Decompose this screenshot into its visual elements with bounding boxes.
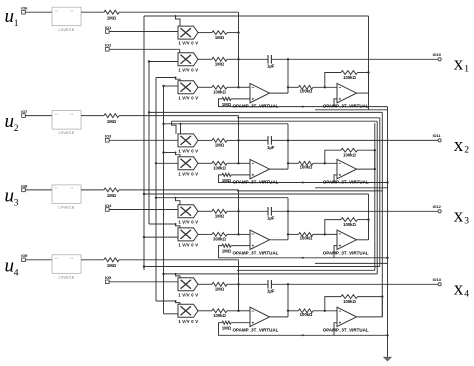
svg-text:100kΩ: 100kΩ bbox=[343, 222, 356, 227]
svg-text:OPAMP_3T_VIRTUAL: OPAMP_3T_VIRTUAL bbox=[233, 328, 279, 333]
svg-text:100kΩ: 100kΩ bbox=[300, 312, 313, 317]
svg-text:1MΩ: 1MΩ bbox=[222, 178, 232, 183]
svg-text:1: 1 bbox=[14, 19, 19, 29]
svg-text:IO5: IO5 bbox=[105, 276, 111, 280]
svg-text:100kΩ: 100kΩ bbox=[213, 166, 226, 171]
svg-text:IO2: IO2 bbox=[105, 44, 111, 48]
svg-text:x: x bbox=[454, 279, 464, 300]
svg-text:IO8: IO8 bbox=[21, 184, 27, 188]
svg-text:LVVECE: LVVECE bbox=[59, 275, 75, 279]
svg-text:4: 4 bbox=[464, 290, 469, 300]
svg-text:100kΩ: 100kΩ bbox=[343, 153, 356, 158]
svg-text:1 V/V 0 V: 1 V/V 0 V bbox=[178, 95, 198, 100]
svg-text:1MΩ: 1MΩ bbox=[107, 263, 117, 268]
svg-text:1MΩ: 1MΩ bbox=[107, 193, 117, 198]
svg-text:1 V/V 0 V: 1 V/V 0 V bbox=[178, 41, 198, 46]
svg-text:1MΩ: 1MΩ bbox=[215, 62, 225, 67]
svg-text:1 V/V 0 V: 1 V/V 0 V bbox=[178, 148, 198, 153]
svg-text:1 V/V 0 V: 1 V/V 0 V bbox=[178, 242, 198, 247]
svg-text:1MΩ: 1MΩ bbox=[107, 16, 117, 21]
svg-text:LVVECE: LVVECE bbox=[59, 131, 75, 135]
svg-text:100kΩ: 100kΩ bbox=[300, 89, 313, 94]
svg-text:3: 3 bbox=[464, 217, 469, 227]
svg-text:IO3: IO3 bbox=[105, 135, 111, 139]
svg-text:100kΩ: 100kΩ bbox=[300, 165, 313, 170]
svg-text:1µF: 1µF bbox=[267, 64, 275, 69]
svg-text:100kΩ: 100kΩ bbox=[343, 299, 356, 304]
svg-text:u: u bbox=[5, 111, 15, 132]
svg-text:LVVECE: LVVECE bbox=[59, 206, 75, 210]
svg-text:IO9: IO9 bbox=[21, 254, 27, 258]
svg-text:1MΩ: 1MΩ bbox=[215, 35, 225, 40]
svg-text:1MΩ: 1MΩ bbox=[215, 143, 225, 148]
svg-text:IO4: IO4 bbox=[105, 204, 112, 208]
svg-text:1: 1 bbox=[464, 65, 469, 75]
svg-text:x: x bbox=[454, 206, 464, 227]
svg-text:1 V/V 0 V: 1 V/V 0 V bbox=[178, 292, 198, 297]
svg-text:IO10: IO10 bbox=[433, 53, 441, 57]
svg-text:1MΩ: 1MΩ bbox=[222, 249, 232, 254]
svg-text:OPAMP_3T_VIRTUAL: OPAMP_3T_VIRTUAL bbox=[233, 250, 279, 255]
svg-text:x: x bbox=[454, 54, 464, 75]
svg-text:IO13: IO13 bbox=[433, 278, 441, 282]
svg-text:1µF: 1µF bbox=[267, 145, 275, 150]
svg-text:300kΩ: 300kΩ bbox=[213, 237, 226, 242]
svg-text:100kΩ: 100kΩ bbox=[343, 75, 356, 80]
svg-text:2: 2 bbox=[14, 124, 19, 134]
svg-text:u: u bbox=[5, 6, 15, 27]
svg-text:IO11: IO11 bbox=[433, 134, 441, 138]
svg-text:u: u bbox=[5, 255, 15, 276]
svg-text:OPAMP_3T_VIRTUAL: OPAMP_3T_VIRTUAL bbox=[233, 104, 279, 109]
svg-text:LVVECE: LVVECE bbox=[59, 28, 75, 32]
svg-text:1 V/V 0 V: 1 V/V 0 V bbox=[178, 171, 198, 176]
svg-text:OPAMP_3T_VIRTUAL: OPAMP_3T_VIRTUAL bbox=[323, 180, 369, 185]
svg-text:OPAMP_3T_VIRTUAL: OPAMP_3T_VIRTUAL bbox=[323, 328, 369, 333]
svg-text:100kΩ: 100kΩ bbox=[213, 90, 226, 95]
svg-text:3: 3 bbox=[14, 198, 19, 208]
svg-text:1µF: 1µF bbox=[267, 289, 275, 294]
svg-text:1 V/V 0 V: 1 V/V 0 V bbox=[178, 67, 198, 72]
svg-text:2: 2 bbox=[464, 146, 469, 156]
svg-text:1 V/V 0 V: 1 V/V 0 V bbox=[178, 319, 198, 324]
svg-text:OPAMP_3T_VIRTUAL: OPAMP_3T_VIRTUAL bbox=[233, 180, 279, 185]
svg-text:1MΩ: 1MΩ bbox=[222, 326, 232, 331]
svg-text:1MΩ: 1MΩ bbox=[222, 102, 232, 107]
svg-text:100kΩ: 100kΩ bbox=[300, 236, 313, 241]
svg-text:1MΩ: 1MΩ bbox=[215, 214, 225, 219]
svg-text:OPAMP_3T_VIRTUAL: OPAMP_3T_VIRTUAL bbox=[323, 104, 369, 109]
svg-text:IO12: IO12 bbox=[433, 205, 441, 209]
svg-text:IO1: IO1 bbox=[105, 26, 111, 30]
svg-text:OPAMP_3T_VIRTUAL: OPAMP_3T_VIRTUAL bbox=[323, 250, 369, 255]
svg-text:x: x bbox=[454, 135, 464, 156]
svg-text:1µF: 1µF bbox=[267, 216, 275, 221]
svg-text:u: u bbox=[5, 185, 15, 206]
svg-text:1MΩ: 1MΩ bbox=[215, 287, 225, 292]
svg-text:1 V/V 0 V: 1 V/V 0 V bbox=[178, 219, 198, 224]
svg-text:IO7: IO7 bbox=[21, 110, 27, 114]
svg-text:4: 4 bbox=[14, 268, 19, 278]
svg-text:100kΩ: 100kΩ bbox=[213, 313, 226, 318]
svg-text:IO6: IO6 bbox=[21, 7, 27, 11]
svg-text:1MΩ: 1MΩ bbox=[107, 119, 117, 124]
